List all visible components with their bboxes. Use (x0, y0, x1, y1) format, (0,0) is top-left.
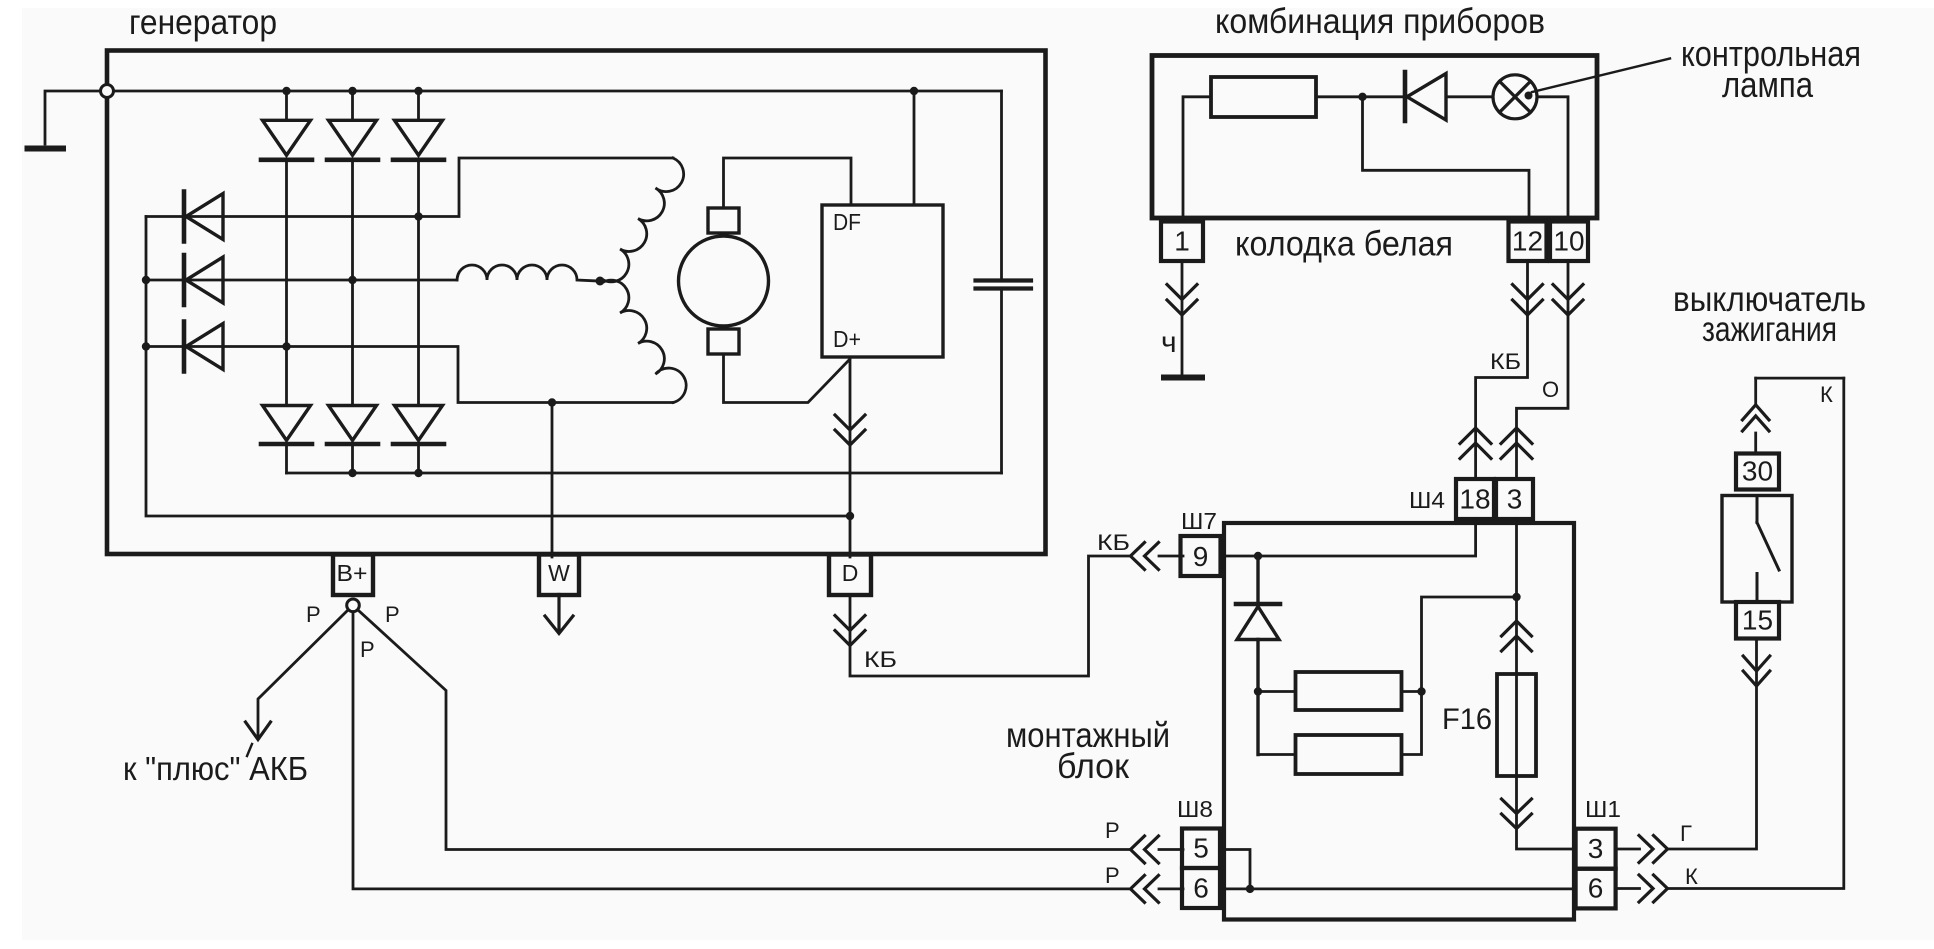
diode VD6 (bottom right, down) (393, 406, 444, 445)
wire Ш4-3 to F16 (1515, 519, 1518, 674)
svg-text:18: 18 (1459, 484, 1490, 515)
junction dot row2-leg2 (348, 276, 356, 284)
svg-text:зажигания: зажигания (1702, 310, 1837, 349)
pin W box (539, 555, 579, 596)
ground (cluster) (1164, 375, 1202, 381)
junction dot bottomrail-leg3 (414, 469, 422, 477)
svg-text:ч: ч (1161, 326, 1177, 359)
junction dot row3-leg1 (282, 342, 290, 350)
svg-text:5: 5 (1193, 833, 1209, 864)
wire resistor to diode (1316, 95, 1404, 98)
wire switch-30 lead (1754, 378, 1757, 453)
junction dot rail-leg2 (348, 87, 356, 95)
junction dot pin9-diode (1254, 552, 1262, 560)
svg-text:КБ: КБ (864, 647, 897, 672)
svg-text:КБ: КБ (1097, 530, 1130, 555)
junction dot star point (596, 277, 605, 286)
diode VD8 (field middle, left) (184, 255, 223, 305)
wire row1 phase-top (146, 158, 673, 217)
wire pin1 to resistor (1183, 97, 1211, 220)
pin 1 box (колодка белая) (1161, 222, 1203, 262)
svg-text:Ш4: Ш4 (1409, 487, 1445, 513)
junction dot resistors-right (1417, 687, 1425, 695)
junction dot pin5-pin6 (1246, 885, 1254, 893)
connector chevrons under pin1 (1167, 285, 1197, 316)
svg-text:12: 12 (1512, 226, 1543, 257)
svg-text:15: 15 (1742, 605, 1773, 636)
connector chevrons after Ш1-3 (right) (1639, 836, 1668, 863)
instrument cluster box (комбинация приборов) (1152, 56, 1597, 219)
junction dot rail-leg3 (414, 87, 422, 95)
connector chevrons before Ш8-6 (1131, 875, 1159, 902)
svg-text:Р: Р (360, 637, 375, 662)
diode VD10 (cluster, left) (1405, 72, 1446, 121)
svg-text:W: W (548, 560, 570, 586)
connector chevrons under pin10 (1553, 285, 1583, 316)
wire top rail (114, 90, 1002, 93)
pin B+ box (333, 555, 373, 596)
junction dot F16 tap (1512, 593, 1520, 601)
stator winding L3 (bottom phase) (603, 280, 687, 402)
resistor R3 (block lower) (1296, 735, 1402, 774)
connector chevrons under pin12 (1513, 285, 1543, 316)
svg-text:КБ: КБ (1490, 349, 1521, 374)
connector chevrons below 15 (down) (1743, 656, 1770, 686)
svg-text:к "плюс" АКБ: к "плюс" АКБ (123, 750, 308, 787)
connector chevrons above F16 (up) (1502, 621, 1532, 651)
svg-text:D: D (842, 560, 859, 586)
wire pin6 internal (cross wire) (1220, 888, 1576, 891)
wire leg1 (285, 91, 288, 473)
svg-text:F16: F16 (1442, 703, 1492, 736)
svg-text:9: 9 (1193, 541, 1209, 572)
apostrophe artifact (247, 744, 252, 756)
svg-text:О: О (1542, 377, 1559, 402)
connector chevrons above Ш4-18 (up) (1460, 428, 1491, 459)
wire pin9 to pin18 (1224, 519, 1476, 556)
wire leg3 (417, 91, 420, 473)
svg-text:3: 3 (1588, 833, 1604, 864)
wire diode to lamp (1446, 95, 1493, 98)
pin 18 box (Ш4) (1456, 479, 1494, 519)
wire to R2 left (1258, 692, 1296, 755)
wire switch top К (1756, 377, 1844, 380)
svg-text:Ш8: Ш8 (1177, 796, 1213, 822)
wire rotor top to regulator (724, 158, 852, 208)
connector chevrons before pin9 (left) (1131, 543, 1159, 570)
wire pin12 КБ down to Ш4-18 (1476, 261, 1528, 479)
connector chevrons above 30 (up) (1742, 405, 1769, 431)
junction dot bottomrail-leg2 (348, 469, 356, 477)
stator winding L1 (top phase) (603, 158, 684, 282)
pin 3 box (Ш1) (1576, 829, 1616, 869)
svg-text:DF: DF (833, 209, 861, 235)
resistor R2 (block upper) (1296, 672, 1402, 710)
pin 30 box (1736, 454, 1779, 490)
svg-text:колодка белая: колодка белая (1235, 225, 1453, 264)
junction dot after resistor (1358, 93, 1366, 101)
connector chevrons before Ш8-5 (1131, 836, 1159, 863)
wire leg2 (351, 91, 354, 473)
wire DF to rail (913, 91, 916, 205)
svg-text:генератор: генератор (129, 3, 277, 42)
diode VD4 (bottom left, down) (261, 406, 312, 445)
junction dot lamp pointer (1525, 92, 1533, 100)
wire D+ down to D pin (850, 357, 1183, 676)
wire pin10 О down to Ш4-3 (1517, 261, 1569, 479)
rotor (circle with brushes) (679, 208, 769, 354)
svg-text:B+: B+ (337, 560, 368, 586)
diode VD5 (bottom middle, down) (327, 406, 378, 445)
diode VD3 (top right, down) (393, 120, 444, 160)
wire B+ P lower (to Ш8-6) (353, 612, 1183, 889)
pin 12 box (1509, 222, 1547, 262)
pointer line to label (1532, 59, 1670, 93)
connector chevrons above Ш4-3 (up) (1501, 428, 1532, 459)
pin 5 box (Ш8) (1182, 829, 1220, 869)
svg-text:30: 30 (1742, 456, 1773, 487)
fuse F16 (1497, 674, 1536, 776)
wire row3 phase-bottom (146, 347, 673, 403)
wire Ш1-3 to switch (1616, 639, 1757, 850)
junction dot row2-bus (142, 276, 150, 284)
wire W drop (551, 403, 554, 558)
junction dot row3-bus (142, 342, 150, 350)
capacitor C1 (976, 281, 1032, 289)
svg-text:комбинация приборов: комбинация приборов (1215, 2, 1545, 41)
wire pin5 internal (1220, 850, 1250, 889)
ground (body) (28, 146, 64, 152)
pin 6 box (Ш1) (1576, 869, 1616, 909)
montage block box (монтажный блок) (1224, 523, 1574, 920)
wire resistors right join (1402, 597, 1518, 755)
wire bottom rail (287, 472, 1002, 475)
lamp HL1 (control lamp) (1493, 75, 1537, 119)
connector chevrons below F16 (down) (1502, 799, 1532, 829)
junction dot rail-leg1 (282, 87, 290, 95)
svg-text:Р: Р (1105, 818, 1120, 843)
svg-text:1: 1 (1174, 226, 1190, 257)
wire ground-to-node (45, 91, 101, 144)
svg-text:6: 6 (1588, 873, 1604, 904)
W output arrow (545, 595, 573, 634)
svg-text:Ш1: Ш1 (1585, 796, 1621, 822)
svg-text:Р: Р (306, 602, 321, 627)
wire B+ to AKB (diagonal) (258, 610, 348, 737)
diode VD9 (field bottom, left) (184, 322, 223, 372)
diode VD7 (field top, left) (184, 192, 223, 242)
wire B+ P upper (to Ш8-5) (358, 610, 1183, 850)
switch blade (1757, 496, 1779, 603)
resistor R1 (cluster) (1211, 77, 1316, 117)
pin 3 box (Ш4) (1496, 479, 1533, 519)
svg-text:Г: Г (1680, 821, 1692, 846)
svg-text:К: К (1820, 382, 1833, 407)
arrow to AKB (246, 722, 271, 740)
junction dot rail-DF (910, 87, 918, 95)
wire Ш1-6 to switch (К) (1616, 378, 1844, 888)
diode VD2 (top middle, down) (327, 120, 378, 160)
pin D box (829, 555, 871, 596)
svg-text:6: 6 (1193, 873, 1209, 904)
svg-text:Р: Р (1105, 863, 1120, 888)
wire F16 through and down (1517, 674, 1576, 849)
wire rotor bottom brush (724, 354, 850, 403)
junction dot D-bus (846, 512, 854, 520)
wire left bus to D (146, 217, 850, 517)
wire pin1 to ground (1181, 261, 1184, 374)
wire tap to pin12 (1363, 97, 1530, 220)
connector chevrons on D wire (inside) (835, 415, 865, 445)
diode VD1 (top left, down) (261, 120, 312, 160)
svg-text:10: 10 (1553, 226, 1584, 257)
junction dot row1-leg3 (414, 212, 422, 220)
node B+ terminal circle (347, 599, 360, 612)
pin 6 box (Ш8) (1182, 868, 1220, 908)
switch SA1 body (ignition contact group) (1722, 496, 1792, 603)
svg-text:D+: D+ (833, 326, 861, 352)
wire row2 phase-mid (146, 279, 457, 282)
connector chevrons under D box (835, 616, 865, 646)
op-amp U1 voltage regulator box (822, 205, 943, 357)
junction dot diode-resistors (1254, 687, 1262, 695)
svg-text:блок: блок (1057, 747, 1130, 786)
stator winding L2 (middle phase) (457, 265, 598, 281)
junction dot row3-W (548, 398, 556, 406)
pin 9 box (Ш7) (1181, 536, 1221, 576)
svg-text:Ш7: Ш7 (1181, 508, 1217, 534)
node A (B+ internal node circle) (101, 85, 114, 98)
wire lamp to pin10 (1537, 97, 1568, 220)
pin 15 box (1736, 602, 1779, 639)
wire capacitor top (1000, 91, 1003, 281)
svg-text:лампа: лампа (1722, 64, 1814, 105)
svg-text:3: 3 (1507, 484, 1523, 515)
svg-text:К: К (1685, 864, 1698, 889)
wire capacitor bottom (1000, 289, 1003, 474)
svg-text:Р: Р (385, 602, 400, 627)
connector chevrons after Ш1-6 (right) (1639, 875, 1668, 902)
generator box (107, 51, 1046, 555)
diode VD11 (montage block, up) (1236, 556, 1280, 755)
pin 10 box (1550, 222, 1588, 262)
